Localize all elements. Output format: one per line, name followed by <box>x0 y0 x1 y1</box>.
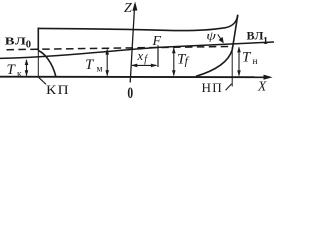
X axis arrowhead <box>264 75 273 80</box>
waterline VL0 (dashed) <box>7 46 234 49</box>
KP pointer tick <box>39 77 46 84</box>
hull deck sheer line <box>38 15 238 31</box>
X axis (baseline) <box>0 76 268 79</box>
svg-text:НП: НП <box>202 81 223 95</box>
dimension T_m arrow <box>106 50 108 76</box>
svg-text:Z: Z <box>124 1 132 16</box>
stern perpendicular (KP line) <box>37 50 39 77</box>
svg-text:ВЛ: ВЛ <box>247 29 264 43</box>
dimension T_f arrow <box>173 48 175 75</box>
Z axis arrowhead <box>132 2 137 11</box>
waterline VL1 (inclined, solid) <box>0 42 274 58</box>
bow underwater curve <box>196 50 232 77</box>
bow perpendicular (NP line) <box>231 47 233 87</box>
stern underwater curve <box>38 51 56 77</box>
hull stern edge <box>37 28 39 51</box>
svg-text:ВЛ: ВЛ <box>5 35 27 47</box>
Z axis <box>130 6 134 83</box>
svg-text:м: м <box>97 65 103 75</box>
svg-text:КП: КП <box>46 84 70 97</box>
svg-text:к: к <box>17 69 22 79</box>
node F (centre of flotation) tick <box>157 45 159 67</box>
psi pointer arrow <box>218 35 223 42</box>
svg-text:н: н <box>253 57 258 67</box>
dimension T_k arrow <box>26 60 28 76</box>
svg-text:1: 1 <box>263 36 268 47</box>
svg-text:F: F <box>152 34 162 49</box>
svg-text:x: x <box>137 49 144 63</box>
dimension x_f arrow <box>132 64 156 66</box>
svg-text:X: X <box>257 79 267 94</box>
dimension T_n arrow <box>238 47 240 75</box>
NP pointer tick <box>226 84 232 91</box>
bow stem <box>232 15 238 50</box>
svg-text:0: 0 <box>26 39 31 50</box>
svg-text:0: 0 <box>127 85 133 101</box>
svg-text:ψ: ψ <box>206 30 216 42</box>
